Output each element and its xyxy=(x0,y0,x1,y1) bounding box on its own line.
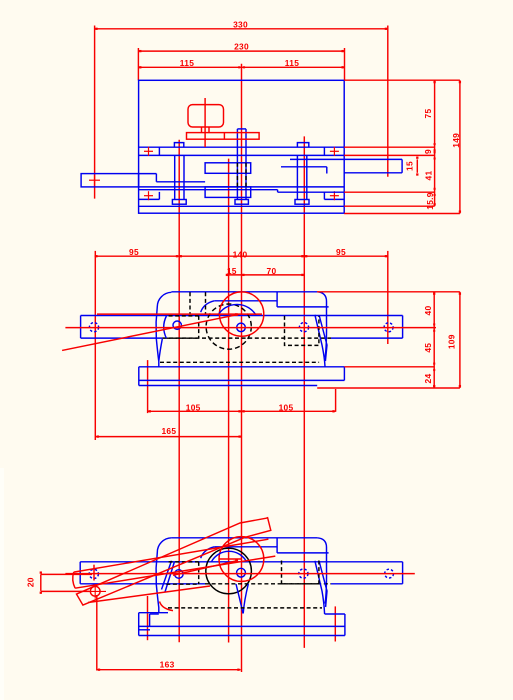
svg-text:105: 105 xyxy=(186,403,201,413)
svg-text:24: 24 xyxy=(423,374,433,384)
svg-text:115: 115 xyxy=(285,58,299,68)
svg-text:41: 41 xyxy=(423,171,433,181)
svg-text:105: 105 xyxy=(279,403,294,413)
svg-text:40: 40 xyxy=(423,306,433,316)
svg-text:149: 149 xyxy=(451,133,461,148)
svg-text:20: 20 xyxy=(26,577,36,587)
svg-text:95: 95 xyxy=(129,247,139,257)
svg-text:109: 109 xyxy=(446,334,456,349)
svg-text:330: 330 xyxy=(233,19,248,29)
svg-text:15: 15 xyxy=(227,266,237,276)
svg-text:70: 70 xyxy=(267,266,277,276)
svg-text:9: 9 xyxy=(423,149,433,154)
svg-text:165: 165 xyxy=(161,426,176,436)
svg-text:230: 230 xyxy=(234,42,249,52)
svg-text:95: 95 xyxy=(336,247,346,257)
svg-text:115: 115 xyxy=(180,58,194,68)
svg-text:163: 163 xyxy=(160,660,175,670)
svg-text:75: 75 xyxy=(423,109,433,119)
svg-text:140: 140 xyxy=(233,249,248,259)
svg-text:45: 45 xyxy=(423,343,433,353)
svg-text:15: 15 xyxy=(404,161,414,171)
svg-text:15.9: 15.9 xyxy=(425,192,435,210)
